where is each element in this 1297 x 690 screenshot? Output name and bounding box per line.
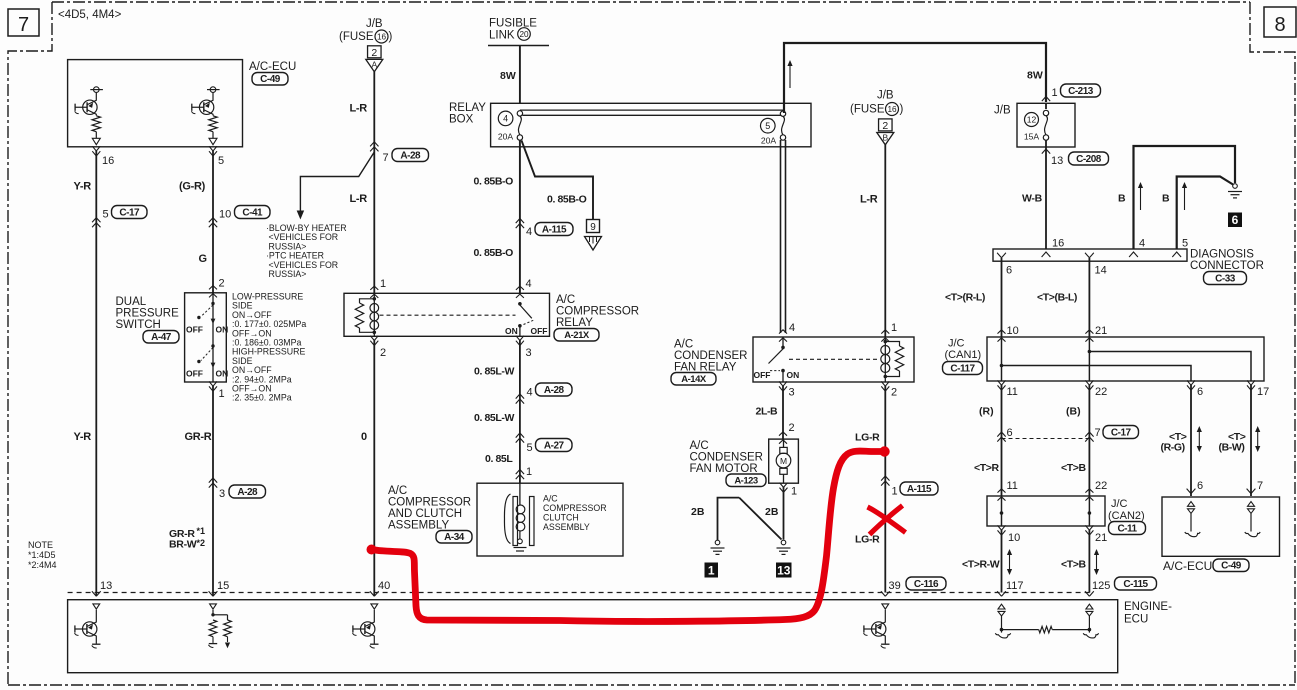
svg-text:*2: *2	[197, 538, 206, 548]
svg-text:8: 8	[1274, 14, 1285, 36]
svg-text:5: 5	[103, 209, 109, 221]
svg-text:A/C: A/C	[388, 485, 407, 497]
svg-text:(B-W): (B-W)	[1219, 442, 1245, 454]
CAN1 internal wiring	[1001, 337, 1003, 381]
svg-text:RELAY: RELAY	[556, 317, 593, 329]
ECU pin 39 internals	[882, 604, 889, 609]
svg-text:117: 117	[1006, 580, 1024, 592]
svg-text:C-17: C-17	[1111, 427, 1132, 438]
svg-text:11: 11	[1007, 386, 1018, 398]
svg-text:7: 7	[1257, 480, 1263, 492]
clutch assembly box A-34	[477, 483, 623, 556]
fan motor symbol	[783, 439, 785, 447]
svg-text:FUSIBLE: FUSIBLE	[489, 18, 537, 30]
svg-text:*2:4M4: *2:4M4	[28, 560, 57, 570]
svg-text:2L-B: 2L-B	[756, 406, 779, 418]
ECU CAN termination	[998, 604, 1005, 609]
doubled wire from fuse5 to condenser fan relay	[780, 140, 782, 333]
compressor relay switch	[518, 302, 522, 306]
svg-text:13: 13	[100, 580, 112, 592]
arrow up B right	[1184, 187, 1186, 210]
fuse 12 15A	[1025, 113, 1039, 127]
svg-text:*1:4D5: *1:4D5	[28, 550, 56, 560]
wire 0 from compressor relay pin2 to ENGINE-ECU pin40	[373, 340, 375, 596]
svg-text:OFF: OFF	[754, 370, 771, 380]
ground wire B from diag pin5	[1177, 177, 1233, 250]
svg-text:10: 10	[219, 209, 231, 221]
svg-text:DUAL: DUAL	[116, 296, 147, 308]
wire L-R from J/B B to fan relay pin1	[884, 145, 886, 338]
A/C-ECU pin symbol left	[1188, 502, 1195, 507]
svg-text:DIAGNOSIS: DIAGNOSIS	[1190, 249, 1254, 261]
resistor under Q2	[209, 116, 217, 132]
branch arrow to blow-by heater	[300, 152, 374, 211]
connector A-28 pin3 on GR-R wire	[209, 478, 217, 488]
svg-text:13: 13	[777, 564, 791, 578]
svg-text:C-213: C-213	[1068, 86, 1094, 97]
svg-text:21: 21	[1095, 325, 1107, 337]
svg-text:15: 15	[217, 580, 229, 592]
clutch coil symbol	[519, 483, 521, 505]
svg-text:A-34: A-34	[444, 532, 465, 543]
svg-text:CONNECTOR: CONNECTOR	[1190, 260, 1264, 272]
svg-text:): )	[389, 31, 393, 43]
svg-text:OFF: OFF	[186, 325, 203, 335]
svg-text:(FUSE: (FUSE	[850, 104, 885, 116]
svg-text:B: B	[1118, 193, 1126, 205]
A/C-ECU pin symbol right	[1248, 502, 1255, 507]
connector A-115 pin4 on 0.85B-O	[516, 219, 524, 229]
svg-text:A-28: A-28	[544, 385, 565, 396]
J/C CAN2 box C-11	[987, 496, 1105, 526]
wire W-B to diagnosis connector	[1045, 103, 1047, 109]
wire T R-W from CAN2 to ENGINE-ECU	[1001, 530, 1003, 593]
svg-text:6: 6	[1232, 213, 1239, 227]
bus bar in relay box	[520, 109, 783, 111]
svg-text:NOTE: NOTE	[28, 540, 53, 550]
svg-text:ON: ON	[216, 325, 229, 335]
connector C-208 pin13	[1042, 149, 1050, 154]
connector C-213 pin1	[1042, 97, 1050, 102]
svg-text:ASSEMBLY: ASSEMBLY	[388, 520, 449, 532]
J/B fuse 12 box	[1017, 103, 1075, 147]
svg-text:13: 13	[1051, 155, 1063, 167]
svg-text:4: 4	[526, 278, 532, 290]
svg-text:8W: 8W	[500, 70, 516, 82]
svg-text:16: 16	[1052, 238, 1064, 250]
wire 8W from fusible link	[519, 46, 521, 104]
red annotation end dot	[879, 446, 889, 456]
svg-text:A/C-ECU: A/C-ECU	[1163, 559, 1212, 573]
svg-text:125: 125	[1092, 580, 1110, 592]
svg-text::2. 35±0. 2MPa: :2. 35±0. 2MPa	[232, 393, 292, 403]
svg-text:CONDENSER: CONDENSER	[690, 452, 763, 464]
svg-text:0. 85L-W: 0. 85L-W	[474, 412, 514, 424]
svg-text:FAN RELAY: FAN RELAY	[674, 362, 737, 374]
current direction arrow	[789, 65, 791, 88]
svg-text:J/C: J/C	[1111, 498, 1128, 510]
svg-text:(FUSE: (FUSE	[339, 31, 374, 43]
svg-text:10: 10	[1008, 532, 1020, 544]
wire T B-L from diag pin14 to CAN1	[1088, 258, 1090, 337]
svg-text:(CAN1): (CAN1)	[945, 349, 982, 361]
red annotation start dot	[367, 545, 377, 555]
fan relay dashed actuator line	[789, 358, 878, 360]
svg-text:A/C: A/C	[556, 294, 575, 306]
svg-text:J/B: J/B	[994, 105, 1011, 117]
wire R from CAN1 pin11 to CAN2	[1001, 385, 1003, 496]
svg-text:COMPRESSOR: COMPRESSOR	[388, 497, 471, 509]
pin 14 of diagnosis connector	[1085, 253, 1094, 258]
pin 11 out of CAN1	[998, 380, 1006, 390]
svg-text:C-49: C-49	[1221, 560, 1242, 571]
svg-text:20A: 20A	[761, 136, 777, 146]
svg-text:2: 2	[380, 347, 386, 359]
svg-text:15A: 15A	[1024, 132, 1040, 142]
wire L-R from J/B A down	[373, 72, 375, 294]
pin 3 of compressor relay	[516, 336, 524, 346]
svg-text:A-123: A-123	[734, 475, 758, 486]
pin 10 out of CAN2	[998, 525, 1006, 535]
wire 0.85B-O from fuse4 down	[519, 140, 521, 293]
svg-text:<T>R-W: <T>R-W	[962, 559, 1000, 571]
svg-text:FAN MOTOR: FAN MOTOR	[690, 463, 758, 475]
svg-text:22: 22	[1095, 386, 1107, 398]
svg-text:Y-R: Y-R	[74, 431, 92, 443]
pin 22 out of CAN1	[1085, 380, 1093, 390]
svg-text:0. 85B-O: 0. 85B-O	[474, 247, 514, 259]
svg-text:1: 1	[380, 278, 386, 290]
svg-text:L-R: L-R	[350, 103, 368, 115]
fan relay coil	[884, 337, 886, 382]
svg-text:4: 4	[527, 387, 533, 399]
svg-text:40: 40	[378, 580, 390, 592]
svg-text:6: 6	[1006, 265, 1012, 277]
svg-text:2: 2	[882, 120, 888, 132]
page number box 7	[8, 9, 39, 36]
svg-text:(G-R): (G-R)	[179, 181, 206, 193]
A/C condenser fan motor box A-123	[769, 439, 799, 483]
pin 2 of condenser fan relay	[881, 381, 889, 391]
wire T B from CAN2 to ENGINE-ECU	[1088, 530, 1090, 593]
svg-text:6: 6	[1197, 386, 1203, 398]
svg-text:C-33: C-33	[1215, 273, 1236, 284]
ground wire B from diag pin4	[1134, 146, 1236, 249]
svg-text:16: 16	[102, 155, 114, 167]
svg-text:16: 16	[887, 105, 897, 114]
svg-text:CLUTCH: CLUTCH	[543, 513, 579, 523]
svg-text:17: 17	[1257, 386, 1269, 398]
svg-text:(R-G): (R-G)	[1161, 442, 1185, 454]
pin 21 out of CAN2	[1085, 525, 1093, 535]
svg-text:COMPRESSOR: COMPRESSOR	[556, 306, 639, 318]
svg-text:7: 7	[1095, 427, 1101, 439]
pin 6 of diagnosis connector	[997, 253, 1006, 258]
svg-text:B: B	[1162, 193, 1170, 205]
svg-text:1: 1	[219, 388, 225, 400]
ground point 13	[781, 540, 786, 545]
svg-text:0. 85L: 0. 85L	[485, 453, 513, 465]
A/C compressor relay box A-21X	[344, 293, 550, 336]
svg-text:21: 21	[1095, 532, 1107, 544]
svg-text:3: 3	[219, 488, 225, 500]
svg-text:2: 2	[789, 422, 795, 434]
svg-text:1: 1	[791, 486, 797, 498]
svg-text:A-115: A-115	[907, 484, 932, 495]
svg-text:ON: ON	[787, 370, 800, 380]
page border dash-dot frame	[52, 1, 1250, 3]
svg-text:ASSEMBLY: ASSEMBLY	[543, 522, 590, 532]
relay box	[491, 103, 811, 147]
pin 2 of compressor relay	[370, 336, 378, 346]
svg-text:14: 14	[1095, 265, 1107, 277]
svg-text:6: 6	[1197, 480, 1203, 492]
wire T from CAN1 pin6 to A/C-ECU	[1190, 385, 1192, 496]
svg-text:0. 85B-O: 0. 85B-O	[474, 176, 514, 188]
svg-text:A-47: A-47	[151, 332, 172, 343]
svg-text:ON: ON	[216, 369, 229, 379]
svg-text:LG-R: LG-R	[855, 534, 880, 546]
svg-text:4: 4	[526, 226, 532, 238]
svg-text:<T>B: <T>B	[1061, 462, 1086, 474]
A/C-ECU box C-49	[68, 60, 243, 147]
svg-text:10: 10	[1007, 325, 1019, 337]
pin 6 out of CAN1	[1187, 380, 1195, 390]
svg-text:<T>(R-L): <T>(R-L)	[945, 292, 985, 304]
ground point 1	[715, 540, 720, 545]
red annotation path	[372, 451, 885, 621]
pin 1 of dual pressure switch	[209, 381, 217, 391]
svg-text:A-28: A-28	[400, 150, 421, 161]
svg-text:L-R: L-R	[350, 193, 368, 205]
svg-text:G: G	[199, 253, 208, 265]
svg-text:C-117: C-117	[950, 363, 975, 374]
svg-text:2B: 2B	[691, 506, 705, 518]
arrow up B left	[1140, 187, 1142, 210]
wire 0.85L-W from compressor relay pin3	[519, 340, 521, 483]
svg-text:0. 85B-O: 0. 85B-O	[547, 194, 587, 206]
svg-text:<T>(B-L): <T>(B-L)	[1037, 292, 1077, 304]
ground point 6	[1233, 184, 1238, 189]
svg-text:<T>B: <T>B	[1061, 559, 1086, 571]
svg-text:1: 1	[526, 466, 532, 478]
connector A-115 pin1 on LG-R	[881, 476, 889, 486]
svg-text:12: 12	[1027, 115, 1037, 125]
wire B from CAN1 pin22 to CAN2	[1088, 385, 1090, 496]
svg-text:PRESSURE: PRESSURE	[116, 308, 180, 320]
svg-text:4: 4	[1139, 238, 1145, 250]
connector A-27 pin5 on wire	[516, 433, 524, 443]
svg-text:A-28: A-28	[237, 487, 258, 498]
page number box 8	[1264, 7, 1296, 37]
dual pressure switch box A-47	[185, 293, 227, 382]
compressor relay coil	[373, 293, 375, 336]
wire Y-R from A/C-ECU pin16 to ENGINE-ECU pin13	[95, 151, 97, 596]
svg-text:7: 7	[383, 152, 389, 164]
svg-text:4: 4	[503, 114, 508, 124]
svg-text:0. 85L-W: 0. 85L-W	[474, 366, 514, 378]
A/C-ECU box bottom right	[1162, 497, 1280, 556]
transistor Q1 in A/C-ECU	[90, 89, 103, 91]
svg-text:A/C: A/C	[543, 494, 558, 504]
svg-text:B: B	[882, 133, 888, 143]
svg-text:A-21X: A-21X	[564, 330, 590, 341]
CAN2 internal wiring	[1001, 496, 1003, 526]
svg-text:(CAN2): (CAN2)	[1108, 510, 1145, 522]
svg-text:2: 2	[891, 387, 897, 399]
wire 8W feed from relay box to J/B fuse12	[784, 43, 1046, 113]
svg-text:2: 2	[219, 278, 225, 290]
svg-text:W-B: W-B	[1022, 193, 1043, 205]
diagnosis connector box C-33	[993, 249, 1187, 261]
low pressure contact	[212, 293, 214, 382]
arrow updown R-G	[1198, 431, 1200, 447]
svg-text:LINK: LINK	[489, 30, 515, 42]
high pressure contact	[211, 344, 214, 347]
pin 17 out of CAN1	[1247, 380, 1255, 390]
svg-text:3: 3	[526, 347, 532, 359]
arrow updown B	[1096, 554, 1098, 570]
wire T R-L from diag pin6 to CAN1	[1001, 258, 1003, 337]
svg-text:J/B: J/B	[877, 90, 894, 102]
svg-text:1: 1	[708, 564, 715, 578]
svg-text:C-115: C-115	[1123, 579, 1148, 590]
transistor Q2 in A/C-ECU	[207, 89, 220, 91]
svg-text:A-27: A-27	[544, 440, 565, 451]
svg-text:ECU: ECU	[1124, 614, 1148, 626]
relay dashed actuator line	[380, 314, 516, 316]
svg-text:(R): (R)	[979, 406, 994, 418]
svg-text:9: 9	[590, 222, 596, 233]
svg-text:1: 1	[1052, 87, 1058, 99]
svg-text:COMPRESSOR: COMPRESSOR	[543, 503, 607, 513]
svg-text:BR-W: BR-W	[169, 539, 197, 551]
svg-text:2: 2	[371, 47, 377, 59]
open arrow to box edge Q2	[212, 132, 214, 139]
svg-text:J/C: J/C	[948, 338, 965, 350]
svg-text:C-208: C-208	[1076, 154, 1102, 165]
A/C condenser fan relay box A-14X	[753, 337, 914, 382]
pin 16 of A/C-ECU	[92, 146, 100, 156]
svg-text:): )	[900, 104, 904, 116]
svg-text:5: 5	[1182, 238, 1188, 250]
branch from fuse4 to ground 9	[522, 141, 594, 220]
svg-text:*1: *1	[197, 526, 206, 536]
svg-text:6: 6	[1007, 427, 1013, 439]
ENGINE-ECU box	[68, 600, 1118, 673]
open arrow to box edge Q1	[95, 132, 97, 139]
svg-text:16: 16	[377, 32, 387, 41]
svg-text:CONDENSER: CONDENSER	[674, 350, 747, 362]
svg-text:7: 7	[18, 14, 29, 36]
svg-text:C-49: C-49	[260, 74, 281, 85]
svg-text:C-11: C-11	[1117, 523, 1137, 534]
svg-text:A/C: A/C	[690, 440, 709, 452]
svg-text:3: 3	[789, 387, 795, 399]
svg-text:5: 5	[527, 442, 533, 454]
svg-text:8W: 8W	[1027, 70, 1043, 82]
ECU pin 15 internals	[210, 604, 217, 609]
svg-text:5: 5	[765, 121, 770, 131]
ground jumper 2B	[718, 498, 740, 540]
svg-text:1: 1	[891, 322, 897, 334]
resistor under Q1	[92, 116, 100, 132]
connector A-28 pin4 on 0.85L-W	[516, 394, 524, 404]
svg-text:<T>R: <T>R	[974, 462, 999, 474]
svg-text:<4D5, 4M4>: <4D5, 4M4>	[58, 9, 122, 21]
svg-text:Y-R: Y-R	[74, 181, 92, 193]
svg-text:LG-R: LG-R	[855, 432, 880, 444]
svg-text:A/C: A/C	[674, 339, 693, 351]
pin 3 of condenser fan relay	[779, 381, 787, 391]
svg-text:4: 4	[789, 322, 795, 334]
wire 2L-B from fan relay pin3 to motor	[782, 386, 784, 439]
svg-text:OFF: OFF	[531, 326, 548, 336]
fuse 4 20A	[498, 111, 513, 126]
svg-text:(B): (B)	[1066, 406, 1081, 418]
svg-text:BOX: BOX	[449, 114, 474, 126]
svg-text:ENGINE-: ENGINE-	[1124, 601, 1172, 613]
svg-text:A/C-ECU: A/C-ECU	[249, 61, 296, 73]
svg-text:22: 22	[1095, 480, 1107, 492]
svg-text:A-115: A-115	[542, 224, 567, 235]
svg-text:RUSSIA>: RUSSIA>	[269, 269, 307, 279]
svg-text:1: 1	[892, 486, 898, 498]
svg-text:A: A	[371, 60, 377, 70]
svg-text:A-14X: A-14X	[681, 374, 707, 385]
wire G/GR-R from A/C-ECU pin5 to pressure switch	[212, 151, 214, 293]
svg-text:GR-R: GR-R	[185, 431, 212, 443]
svg-text:AND CLUTCH: AND CLUTCH	[388, 508, 462, 520]
svg-text:C-17: C-17	[119, 207, 140, 218]
connector dashed line above ENGINE-ECU	[68, 592, 1090, 594]
svg-text:20: 20	[519, 30, 529, 39]
fan relay switch	[782, 337, 784, 346]
svg-text:M: M	[780, 456, 787, 466]
ECU pin 40 internals	[371, 604, 378, 609]
svg-text:2B: 2B	[765, 506, 779, 518]
svg-text:0: 0	[361, 431, 367, 443]
ECU pin 13 internals	[93, 604, 100, 609]
connector A-28 pin7 on L-R wire	[370, 142, 378, 152]
svg-text:C-116: C-116	[914, 579, 939, 590]
pin 5 of A/C-ECU	[209, 146, 217, 156]
J/C CAN1 box C-117	[987, 337, 1264, 381]
pin 1 of condenser fan motor	[780, 483, 788, 493]
wire 2B from motor pin1 to ground 13	[783, 487, 785, 540]
ground 9 symbol	[587, 220, 600, 233]
svg-text:5: 5	[218, 155, 224, 167]
wire T from CAN1 pin17 to A/C-ECU	[1250, 385, 1252, 496]
arrow updown R-W	[1009, 554, 1011, 570]
svg-text:J/B: J/B	[366, 18, 383, 30]
svg-text:ON: ON	[505, 326, 518, 336]
wire GR-R from pressure switch to ENGINE-ECU pin15	[212, 386, 214, 596]
svg-text:11: 11	[1007, 480, 1018, 492]
fuse 5 20A	[761, 118, 776, 133]
svg-text:SWITCH: SWITCH	[116, 319, 161, 331]
arrow updown B-W	[1257, 431, 1259, 447]
svg-text:L-R: L-R	[860, 194, 878, 206]
red X mark	[868, 507, 906, 533]
svg-text:OFF: OFF	[186, 369, 203, 379]
svg-text:RELAY: RELAY	[449, 102, 486, 114]
wire LG-R from fan relay pin2 to ENGINE-ECU pin39	[884, 386, 886, 593]
svg-text:39: 39	[889, 580, 901, 592]
svg-text:20A: 20A	[498, 131, 514, 141]
svg-text:C-41: C-41	[242, 207, 263, 218]
